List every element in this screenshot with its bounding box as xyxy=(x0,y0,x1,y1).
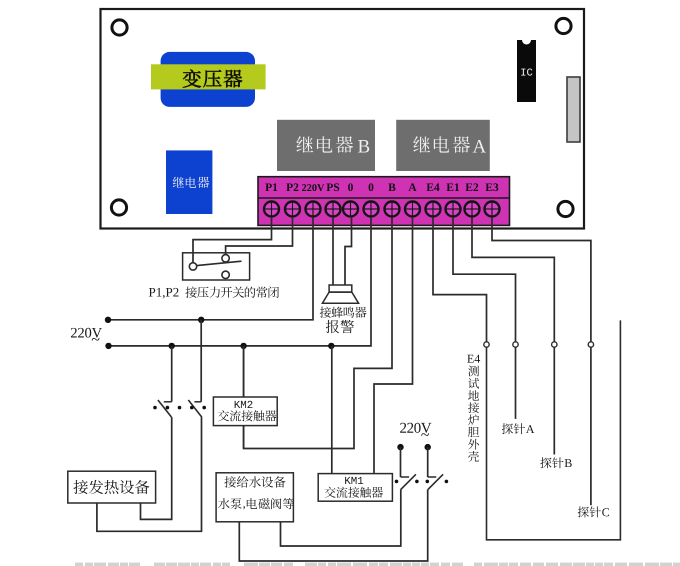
wire B terminal to KM2 coil xyxy=(244,217,392,449)
KM2 linkage dotted line xyxy=(153,406,206,410)
wire probe C xyxy=(590,347,592,505)
water supply box 接给水设备 xyxy=(216,473,294,522)
mounting hole top-right xyxy=(556,18,571,33)
terminal strip block xyxy=(258,177,510,226)
grommet E4 shell entry xyxy=(484,342,489,347)
wire P2 to pressure switch xyxy=(226,217,293,255)
wire E2 to probe B xyxy=(472,217,554,342)
junction 220V supply right xyxy=(425,444,431,450)
wire P1 to pressure switch xyxy=(193,217,272,263)
IC U1 xyxy=(517,40,536,102)
terminal A label xyxy=(408,183,416,191)
wire terminal 0 to AC rail N xyxy=(109,217,372,346)
terminal 0 screw xyxy=(343,202,358,217)
label 220V mains (upper) xyxy=(71,328,102,341)
terminal E2 label xyxy=(465,183,478,191)
wire rail N to KM2 contact1 xyxy=(171,346,173,402)
wire probe B xyxy=(553,347,555,454)
terminal P2 screw xyxy=(285,202,300,217)
transformer T1 body xyxy=(161,52,255,107)
grommet probe A entry xyxy=(513,342,518,347)
wire PS terminal to buzzer xyxy=(332,217,334,285)
terminal 220V screw xyxy=(306,202,321,217)
terminal P1 label xyxy=(265,183,277,191)
pressure switch contact NC xyxy=(222,255,229,262)
wire E4 to shell xyxy=(433,217,487,342)
terminal B label xyxy=(388,183,395,191)
terminal PS label xyxy=(326,183,339,191)
pressure switch contact pole xyxy=(189,263,196,270)
wire probe A xyxy=(515,347,517,419)
junction rail L branch to KM2 contact xyxy=(198,317,204,323)
grommet probe B entry xyxy=(552,342,557,347)
terminal 0 label xyxy=(369,183,374,191)
label 报警 xyxy=(326,320,354,333)
terminal PS screw xyxy=(326,202,341,217)
pressure switch SW1 box xyxy=(183,253,250,280)
terminal 0 label xyxy=(348,183,353,191)
grommet probe C entry xyxy=(588,342,593,347)
cropped watermark band at bottom xyxy=(75,563,680,566)
terminal E3 label xyxy=(485,183,498,191)
pressure switch blade xyxy=(197,261,242,265)
KM2 main contact 1 xyxy=(158,400,172,417)
KM1 main contact 1 xyxy=(401,474,416,489)
label probe C 探针C xyxy=(578,506,609,517)
mounting hole bottom-left xyxy=(111,200,126,215)
contactor coil KM2 box xyxy=(213,397,277,426)
relay (small blue) 继电器 xyxy=(166,150,212,214)
pressure switch contact NO xyxy=(222,271,229,278)
wire rail L to KM2 contact2 xyxy=(200,320,202,402)
terminal 0 screw xyxy=(364,202,379,217)
mounting hole bottom-right xyxy=(558,201,573,216)
wire 220V terminal to AC rail L xyxy=(108,217,313,320)
junction rail N branch to KM2 contact1 xyxy=(169,343,175,349)
wire terminal 0 to buzzer xyxy=(345,217,352,285)
terminal E1 screw xyxy=(446,202,461,217)
buzzer BZ1 xyxy=(322,285,358,303)
junction rail N left end xyxy=(105,343,111,349)
wire KM2 contact1 to heater box xyxy=(141,417,172,519)
label 接蜂鸣器 xyxy=(320,307,367,318)
KM1 linkage dotted line xyxy=(395,480,449,484)
terminal E2 screw xyxy=(465,202,480,217)
terminal P1 screw xyxy=(264,202,279,217)
terminal E1 label xyxy=(446,183,459,191)
wire 220V supply to KM1 contact2 xyxy=(427,447,429,477)
junction 220V supply left xyxy=(397,444,403,450)
contactor coil KM1 box xyxy=(318,474,392,502)
terminal P2 label xyxy=(286,183,298,191)
wire water box to KM1 contact2 xyxy=(239,489,427,561)
terminal E4 screw xyxy=(426,202,441,217)
KM2 main contact 2 xyxy=(188,400,202,417)
label probe B 探针B xyxy=(540,457,571,468)
wire 220V supply to KM1 contact1 xyxy=(400,447,402,477)
wire rail N through KM2 coil xyxy=(243,346,245,449)
heater load box 接发热设备 xyxy=(68,471,156,503)
wire water box to KM1 contact1 xyxy=(281,489,401,546)
terminal B screw xyxy=(385,202,400,217)
terminal 220V label xyxy=(302,184,324,191)
wire rail N to KM1 coil xyxy=(331,346,333,474)
KM1 main contact 2 xyxy=(428,474,443,489)
wire E1 to probe A xyxy=(453,217,516,342)
furnace shell outline xyxy=(487,320,621,539)
terminal E4 label xyxy=(426,183,439,191)
label 220V mains (lower) xyxy=(400,423,431,436)
relay B module 继电器B xyxy=(277,120,375,171)
transformer label band 变压器 xyxy=(151,64,266,89)
label P1,P2 pressure switch note xyxy=(149,287,279,299)
circuit board outline xyxy=(101,9,585,229)
mounting hole top-left xyxy=(112,20,127,35)
relay A module 继电器A xyxy=(396,120,490,171)
junction rail N branch to KM2 coil xyxy=(240,343,246,349)
wire KM2 contact2 to heater box xyxy=(97,417,202,531)
label probe A 探针A xyxy=(502,423,535,434)
junction rail L left end xyxy=(105,317,111,323)
junction rail N branch to KM1 coil xyxy=(328,343,334,349)
wire A terminal to KM1 coil xyxy=(374,217,413,474)
wire E3 to probe C xyxy=(492,217,591,342)
connector slot (gray bar) xyxy=(567,77,580,142)
terminal A screw xyxy=(405,202,420,217)
terminal E3 screw xyxy=(485,202,500,217)
label E4 test note (vertical) xyxy=(467,355,480,462)
